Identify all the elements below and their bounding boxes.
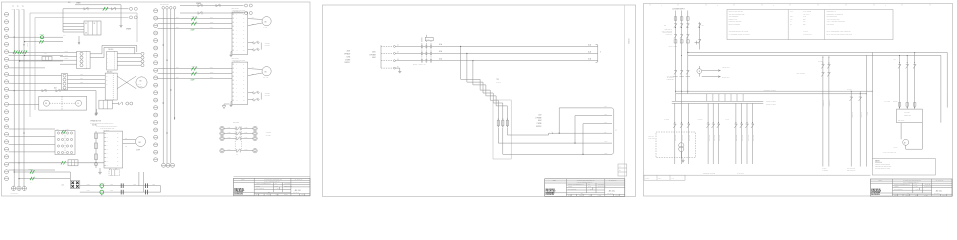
wire <box>62 9 64 32</box>
corner pair down <box>871 91 873 166</box>
ground <box>230 103 232 105</box>
terminal pair C <box>245 4 248 7</box>
wire <box>9 90 96 92</box>
capacitor C4 <box>144 190 146 195</box>
terminal TB2-12 <box>154 91 158 95</box>
limit switch contacts <box>248 42 253 44</box>
contact CR10 <box>118 102 120 105</box>
wire <box>123 139 136 141</box>
zone ticks top <box>649 4 651 6</box>
fuse lead <box>421 41 423 61</box>
terminal TB1-22 <box>4 170 8 174</box>
contact CR6 <box>197 4 199 7</box>
wire 2L1 <box>559 107 612 109</box>
heater contact H1 <box>224 128 236 130</box>
wire to connector 2 <box>19 178 70 180</box>
riser 2 <box>574 116 576 144</box>
terminal TB2-10 <box>154 76 158 80</box>
wire <box>9 143 55 145</box>
wire phase 3 <box>158 27 232 29</box>
supply bus vertical <box>380 45 382 68</box>
wire phase 2 <box>158 23 232 25</box>
contact G6 (green) <box>30 177 32 180</box>
junction <box>174 118 175 119</box>
contact CR9 <box>41 89 43 92</box>
control line <box>712 103 714 164</box>
bracket right <box>596 44 598 62</box>
contact G3 (green) on V2 <box>18 50 20 53</box>
fuse <box>906 103 908 107</box>
wire phase 2 <box>158 73 232 75</box>
terminal TC-R4 <box>253 149 257 153</box>
junction <box>167 60 168 61</box>
heater contact H2 <box>224 133 236 135</box>
terminal TB2-8 <box>154 61 158 65</box>
terminal TB1-11 <box>4 87 8 91</box>
motor M <box>262 67 271 76</box>
terminal TB1-4 <box>4 35 8 39</box>
capacitor C1 <box>120 183 122 188</box>
riser 3 <box>582 124 584 155</box>
junction <box>167 133 168 134</box>
pin MT-4 <box>63 86 66 89</box>
wire <box>698 74 700 77</box>
terminal pair A <box>130 7 133 10</box>
connector X1 <box>70 181 80 189</box>
motor coupling box <box>39 96 87 110</box>
wire to coupling box <box>9 103 39 105</box>
control line <box>681 103 683 164</box>
plus symbol <box>695 42 699 44</box>
pin CB1-1 <box>80 52 83 55</box>
wire <box>9 136 55 138</box>
motor M0 <box>136 77 147 88</box>
contact CR3 <box>111 7 113 10</box>
ground G4 <box>399 69 401 71</box>
transformer box dashed <box>656 132 695 158</box>
relay CR-A (green) <box>100 184 104 188</box>
feeder line <box>899 55 901 109</box>
terminal TB1-6 <box>4 50 8 54</box>
contact <box>707 123 710 125</box>
left supply to C <box>675 94 677 102</box>
breaker contacts row <box>674 23 677 25</box>
wire <box>9 169 55 171</box>
wire <box>905 145 907 149</box>
wires into CB1 <box>60 52 77 54</box>
terminal column TC1 <box>141 52 144 55</box>
svg-text:DIVISION: DIVISION <box>234 193 243 195</box>
wire N dashed lead <box>381 67 393 69</box>
fuse leads down <box>497 128 499 143</box>
ground G5 <box>682 159 684 161</box>
contact <box>680 123 683 125</box>
wire SPARE D <box>180 12 244 14</box>
mini terminals top <box>162 7 165 10</box>
terminal TC-L1 <box>220 126 224 130</box>
contact <box>746 123 749 125</box>
terminal TB1-16 <box>4 125 8 129</box>
sheet 2 border <box>323 5 636 197</box>
wire 2L2 <box>575 115 612 117</box>
wire 2L3 <box>583 123 612 125</box>
terminal TB2-19 <box>154 143 158 147</box>
terminal TB1-23 <box>4 177 8 181</box>
motor A2 <box>76 100 82 106</box>
contact B1-2 <box>57 138 59 140</box>
contact B1-4 <box>57 151 59 153</box>
wire SPARE C <box>180 5 244 7</box>
wire <box>98 132 104 134</box>
wire <box>96 109 98 111</box>
terminal TB2-18 <box>154 135 158 139</box>
relay K5 <box>99 100 112 109</box>
device DB1 <box>107 51 118 70</box>
wires to relay K1 <box>63 23 84 25</box>
motor MXLR <box>903 139 909 145</box>
wire <box>20 60 63 62</box>
terminal TB1-1 <box>4 12 8 16</box>
ground <box>230 53 232 55</box>
fuse F1 <box>497 118 500 121</box>
motor M1 <box>136 137 146 147</box>
sheet 3 border <box>644 4 953 197</box>
title block frame <box>234 178 311 195</box>
terminal TB1-5 <box>4 42 8 46</box>
breaker contacts mid <box>674 70 677 72</box>
riser wires <box>138 172 140 186</box>
contact <box>740 123 743 125</box>
wire <box>112 103 118 105</box>
contact <box>898 64 901 66</box>
motor A1 <box>44 100 50 106</box>
wire <box>95 91 97 112</box>
wire to ground <box>231 51 232 53</box>
wires to motor <box>248 18 262 21</box>
wire 2 <box>940 94 942 123</box>
bracket right 2 <box>612 108 614 154</box>
green mark B1 <box>62 130 64 133</box>
wire L1 dashed lead <box>381 45 393 47</box>
terminal TC-R2 <box>253 131 257 135</box>
fuse contact <box>421 52 422 53</box>
staircase phase C <box>473 61 508 119</box>
terminal TB1-13 <box>4 102 8 106</box>
meter device <box>697 69 702 74</box>
riser 1 <box>558 108 560 133</box>
notes box <box>872 159 935 175</box>
terminal TB2-14 <box>154 106 158 110</box>
contact (green) ph1 <box>191 17 193 21</box>
terminal TB2-7 <box>154 53 158 57</box>
bus C1 <box>672 100 764 102</box>
junction <box>24 44 25 45</box>
sheet 1 border <box>2 2 311 196</box>
terminal TB1-15 <box>4 117 8 121</box>
fuse block FU1 <box>425 37 433 40</box>
staircase phase A <box>461 46 499 119</box>
terminal TB2-21 <box>154 158 158 162</box>
wire <box>9 36 63 38</box>
notes table <box>727 10 893 40</box>
contact G4 (green) on V3 <box>23 50 25 53</box>
terminal TB1-20 <box>4 155 8 159</box>
fuse contact <box>426 45 427 46</box>
title block grid <box>234 179 311 181</box>
terminal TB2-15 <box>154 113 158 117</box>
terminal TB1-7 <box>4 57 8 61</box>
relay bank B1 <box>55 131 75 155</box>
wire L3 dashed lead <box>381 60 393 62</box>
junction <box>14 90 15 91</box>
relay K3 <box>68 160 78 166</box>
wire L2 <box>395 52 597 54</box>
terminal TB1-14 <box>4 110 8 114</box>
wire to ground <box>231 101 232 103</box>
wire 2N <box>549 132 612 134</box>
dashed junction box <box>109 170 120 176</box>
terminal TB1 bottom row <box>11 186 15 190</box>
pin CB1-2 <box>80 56 83 59</box>
junction <box>14 37 15 38</box>
terminal TB2 bottom row <box>162 163 166 167</box>
junctions <box>674 90 677 93</box>
bus A to B corner 1 <box>871 52 873 91</box>
fuse lead <box>430 41 432 61</box>
control line <box>740 103 742 164</box>
control line <box>717 103 719 164</box>
shaft dashed <box>50 102 76 104</box>
terminal TB1-9 <box>4 72 8 76</box>
svg-text:M: M <box>139 142 141 144</box>
bus B2 <box>676 93 866 95</box>
bus riser <box>90 45 137 53</box>
wire arrow 2 <box>702 76 720 78</box>
contact <box>751 123 754 125</box>
fuse marks <box>674 17 677 20</box>
terminal TB2-5 <box>154 39 158 43</box>
wire <box>9 162 104 164</box>
connector block CB1 <box>77 51 91 68</box>
terminal TB2-11 <box>154 83 158 87</box>
chevron row 2 <box>674 34 677 36</box>
terminal TB2-2 <box>154 16 158 20</box>
junction <box>163 45 164 46</box>
junction <box>19 162 20 163</box>
capacitor C2 <box>144 183 146 188</box>
staircase phase B <box>467 53 503 119</box>
junctions <box>460 46 461 47</box>
terminal TC-R1 <box>253 126 257 130</box>
terminal TB2-13 <box>154 98 158 102</box>
enclosure panel outline 2 <box>35 18 129 110</box>
feeder line <box>914 55 916 109</box>
control line <box>746 103 748 164</box>
heater contact H4 <box>224 150 236 152</box>
wire V3 <box>23 10 25 187</box>
ground G2 <box>95 112 97 114</box>
contact CR1 <box>83 7 85 10</box>
ticks B to C <box>706 94 708 102</box>
bus A1 <box>688 51 947 53</box>
bus B1 <box>676 90 872 92</box>
svg-text:DIVISION: DIVISION <box>871 194 880 196</box>
terminal TB2-16 <box>154 121 158 125</box>
terminal TB2-17 <box>154 128 158 132</box>
supply line 3 <box>687 11 689 94</box>
control line <box>735 103 737 164</box>
terminal TB1-12 <box>4 95 8 99</box>
fuse contact <box>426 59 427 60</box>
relay K2 <box>42 57 52 61</box>
control line <box>688 103 690 164</box>
wire <box>120 5 122 24</box>
bus A to B corner 2 <box>865 55 867 93</box>
wires TB2 vertical <box>162 9 164 163</box>
terminal pair B <box>130 16 133 19</box>
contact <box>906 64 909 66</box>
transformer TRN41 <box>679 143 684 148</box>
terminal TB2-20 <box>154 150 158 154</box>
ground G6 <box>99 168 101 170</box>
crossover wires <box>117 76 136 88</box>
contact CR7 <box>215 4 217 7</box>
wire <box>9 151 55 153</box>
starter box U <box>232 12 248 54</box>
fuse contact <box>430 45 431 46</box>
terminal N <box>393 67 395 69</box>
fuse contact <box>421 45 422 46</box>
wire to connector <box>14 171 70 173</box>
terminal TB1-3 <box>4 27 8 31</box>
ground G3 <box>223 104 225 106</box>
contact B1-1 <box>57 132 59 134</box>
wire V1 <box>13 10 15 187</box>
wires from U1 bottom <box>109 168 111 170</box>
wire phase 3 <box>158 77 232 79</box>
contact (green) ph2 <box>191 72 193 76</box>
motor M <box>262 17 271 26</box>
contact G3 (green) <box>61 161 63 165</box>
wire N <box>395 67 399 69</box>
line above title block <box>234 175 311 177</box>
wire <box>9 52 60 54</box>
fuse lead <box>425 41 427 61</box>
bus A2 <box>688 54 941 56</box>
transformer box <box>493 100 511 159</box>
contact G5 (green) <box>30 170 32 173</box>
pin MT-3 <box>63 82 66 85</box>
wire phase 1 <box>158 68 232 70</box>
fuse <box>914 103 916 107</box>
terminal TB1-18 <box>4 140 8 144</box>
terminal TB1-2 <box>4 20 8 24</box>
wire L1 <box>395 45 597 47</box>
terminal TC-R3 <box>253 136 257 140</box>
wire phase 1 <box>158 18 232 20</box>
riser joins <box>687 52 688 53</box>
ground G7 <box>96 111 98 113</box>
starter box U <box>232 62 248 104</box>
contact <box>673 123 676 125</box>
control line <box>707 103 709 164</box>
title block grid <box>545 180 625 182</box>
contact <box>735 123 738 125</box>
wire <box>9 67 45 69</box>
junction <box>24 133 25 134</box>
contact G2 (green) on V1 <box>13 50 15 53</box>
wire arrow down <box>78 36 80 44</box>
wire V2 <box>18 10 20 187</box>
terminal TB2-4 <box>154 31 158 35</box>
terminal pair D <box>245 12 248 15</box>
wires left to MB strip <box>9 75 62 77</box>
terminal pair F <box>126 102 129 105</box>
pin CB1-3 <box>80 60 83 63</box>
relay K1 <box>84 21 101 35</box>
svg-text:DIVISION: DIVISION <box>546 194 555 196</box>
wires to motor <box>248 68 262 71</box>
heater contact H3 <box>224 138 236 140</box>
wire SPARE B <box>63 8 129 10</box>
wire L2 dashed lead <box>381 52 393 54</box>
wire L3 <box>395 60 597 62</box>
wire CAP A <box>80 185 161 187</box>
contact <box>717 123 720 125</box>
fuse F2 <box>501 118 504 121</box>
pin MT-1 <box>63 74 66 77</box>
terminal TB1-17 <box>4 132 8 136</box>
sensor S1 (green) <box>41 36 44 39</box>
feeder line <box>906 55 908 109</box>
wire <box>25 41 63 43</box>
control line <box>752 103 754 164</box>
limit switch contacts <box>248 92 253 94</box>
wire CAP B <box>80 191 161 193</box>
bottom left cells <box>644 175 685 180</box>
wires DB1 right <box>117 53 141 55</box>
bus C2 <box>672 102 764 104</box>
junction rects <box>674 40 677 43</box>
relay CR-B (green) <box>100 190 104 194</box>
contact (green) ph1 <box>191 67 193 71</box>
contact B1-3 <box>57 145 59 147</box>
terminal TC-L4 <box>220 149 224 153</box>
fuse F3 <box>506 118 509 121</box>
contact G1 (green) <box>39 40 41 43</box>
capacitor C3 <box>120 190 122 195</box>
title block grid <box>870 180 952 182</box>
control line <box>674 103 676 164</box>
terminal TB1-21 <box>4 162 8 166</box>
wire <box>9 162 64 164</box>
wire from box <box>900 123 902 140</box>
dashed verticals <box>234 127 236 151</box>
wires into MB <box>68 75 106 77</box>
supply line 4 <box>699 22 701 50</box>
contact <box>687 123 690 125</box>
terminal TB1-8 <box>4 65 8 69</box>
wire <box>9 128 55 130</box>
sheet 2 inner border line <box>624 5 626 197</box>
junction <box>14 170 15 171</box>
terminal L3 <box>393 60 395 62</box>
regulator box <box>897 109 923 123</box>
wire arrow 1 <box>702 70 720 72</box>
terminal TB1-19 <box>4 147 8 151</box>
bus A corner down 2 <box>940 55 942 93</box>
fuse contact <box>426 52 427 53</box>
